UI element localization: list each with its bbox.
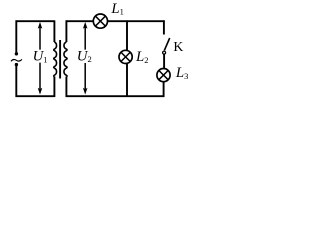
- wire: secondary coil top lead: [65, 20, 67, 42]
- transformer T secondary winding: [64, 42, 67, 77]
- switch K blade: [164, 38, 169, 50]
- transformer T primary winding: [54, 42, 57, 77]
- wire: secondary coil bottom lead: [65, 77, 67, 98]
- switch K pivot circle: [163, 51, 166, 54]
- svg-text:L3: L3: [175, 65, 188, 81]
- wire: L2 branch upper lead: [126, 20, 128, 50]
- svg-text:L2: L2: [135, 49, 148, 65]
- wire: primary coil top lead: [53, 20, 55, 42]
- svg-text:U1: U1: [33, 48, 48, 64]
- svg-text:K: K: [173, 39, 183, 54]
- wire: primary coil bottom lead: [53, 77, 55, 98]
- transformer iron core: [59, 40, 61, 79]
- AC source terminal dot upper: [15, 52, 18, 55]
- voltage arrow U2: [83, 22, 88, 95]
- lamp L2: [119, 50, 132, 63]
- wire: right branch upper lead: [163, 20, 165, 34]
- voltage arrow U1: [38, 22, 43, 95]
- wire: L3 bottom lead: [163, 82, 165, 97]
- wire: secondary top wire right of L1: [107, 20, 164, 22]
- AC source terminal dot lower: [15, 63, 18, 66]
- wire: primary loop top wire: [16, 20, 55, 22]
- lamp L1: [93, 14, 107, 28]
- wire: L2 branch lower lead: [126, 63, 128, 96]
- wire: secondary bottom wire: [66, 95, 165, 97]
- lamp L3: [157, 69, 170, 82]
- AC source tilde: [11, 59, 22, 61]
- wire: primary loop left wire lower: [15, 63, 17, 97]
- wire: primary loop bottom wire: [16, 95, 55, 97]
- svg-text:L1: L1: [110, 1, 123, 17]
- wire: switch to L3 lead: [163, 54, 165, 68]
- svg-text:U2: U2: [77, 48, 92, 64]
- wire: primary loop left wire upper: [15, 20, 17, 55]
- wire: secondary top wire left of L1: [66, 20, 94, 22]
